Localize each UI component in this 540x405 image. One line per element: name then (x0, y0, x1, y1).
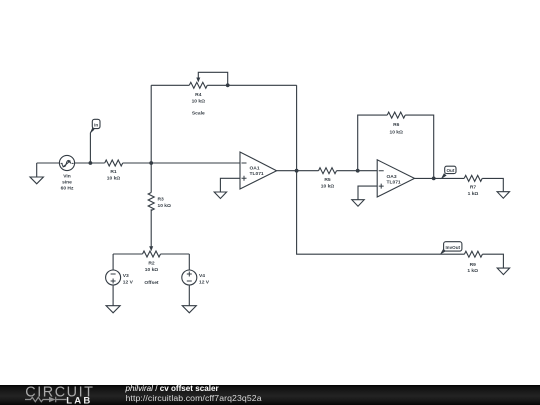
svg-text:OA3: OA3 (387, 174, 397, 180)
svg-text:R4: R4 (195, 92, 202, 98)
svg-text:R9: R9 (470, 262, 477, 268)
svg-text:R3: R3 (158, 197, 165, 203)
svg-text:10 kΩ: 10 kΩ (145, 267, 159, 273)
svg-text:10 kΩ: 10 kΩ (321, 184, 335, 190)
svg-text:1 kΩ: 1 kΩ (467, 268, 478, 274)
svg-text:Vin: Vin (63, 174, 71, 180)
svg-text:R7: R7 (470, 185, 477, 191)
svg-text:R1: R1 (110, 169, 117, 175)
svg-text:V4: V4 (199, 273, 205, 279)
svg-text:10 kΩ: 10 kΩ (192, 99, 206, 105)
svg-text:TL071: TL071 (250, 171, 264, 177)
svg-text:V3: V3 (123, 273, 129, 279)
svg-text:InvOut: InvOut (446, 245, 461, 250)
svg-text:12 V: 12 V (199, 280, 210, 286)
svg-text:60 Hz: 60 Hz (61, 186, 74, 192)
svg-text:12 V: 12 V (123, 280, 134, 286)
svg-text:sine: sine (62, 180, 72, 186)
svg-text:LAB: LAB (66, 395, 92, 405)
svg-text:10 kΩ: 10 kΩ (107, 175, 121, 181)
svg-text:10 kΩ: 10 kΩ (158, 203, 172, 209)
svg-text:Out: Out (446, 168, 454, 173)
svg-text:TL071: TL071 (387, 179, 401, 185)
svg-text:In: In (94, 122, 98, 127)
svg-text:10 kΩ: 10 kΩ (389, 130, 403, 136)
svg-text:R5: R5 (324, 177, 331, 183)
svg-text:1 kΩ: 1 kΩ (468, 191, 479, 197)
svg-text:R6: R6 (393, 122, 400, 128)
svg-text:OA1: OA1 (250, 166, 260, 172)
svg-text:Scale: Scale (192, 111, 205, 117)
svg-text:R2: R2 (148, 261, 155, 267)
svg-text:Offset: Offset (144, 280, 159, 286)
